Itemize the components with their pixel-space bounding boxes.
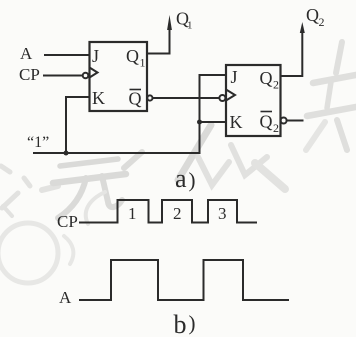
svg-text:Q: Q — [260, 68, 273, 88]
svg-text:J: J — [92, 46, 99, 66]
svg-text:): ) — [189, 168, 196, 192]
svg-text:CP: CP — [57, 212, 78, 231]
svg-text:1: 1 — [140, 56, 146, 70]
svg-text:2: 2 — [273, 121, 279, 135]
svg-text:2: 2 — [319, 15, 325, 29]
svg-text:Q: Q — [306, 5, 319, 25]
svg-text:b: b — [174, 310, 187, 337]
svg-text:CP: CP — [19, 65, 40, 84]
svg-text:): ) — [189, 311, 196, 335]
svg-text:3: 3 — [218, 204, 227, 223]
svg-text:2: 2 — [173, 204, 182, 223]
svg-text:K: K — [92, 88, 105, 108]
svg-text:A: A — [59, 288, 72, 307]
svg-text:“1”: “1” — [27, 134, 49, 151]
svg-text:2: 2 — [273, 78, 279, 92]
svg-text:Q: Q — [126, 46, 139, 66]
svg-text:a: a — [175, 164, 187, 193]
svg-text:J: J — [231, 67, 238, 87]
svg-text:Q: Q — [260, 112, 273, 132]
svg-text:Q: Q — [129, 89, 142, 109]
svg-text:1: 1 — [128, 204, 137, 223]
svg-text:1: 1 — [187, 20, 193, 32]
svg-text:A: A — [20, 44, 33, 63]
svg-text:K: K — [230, 112, 243, 132]
